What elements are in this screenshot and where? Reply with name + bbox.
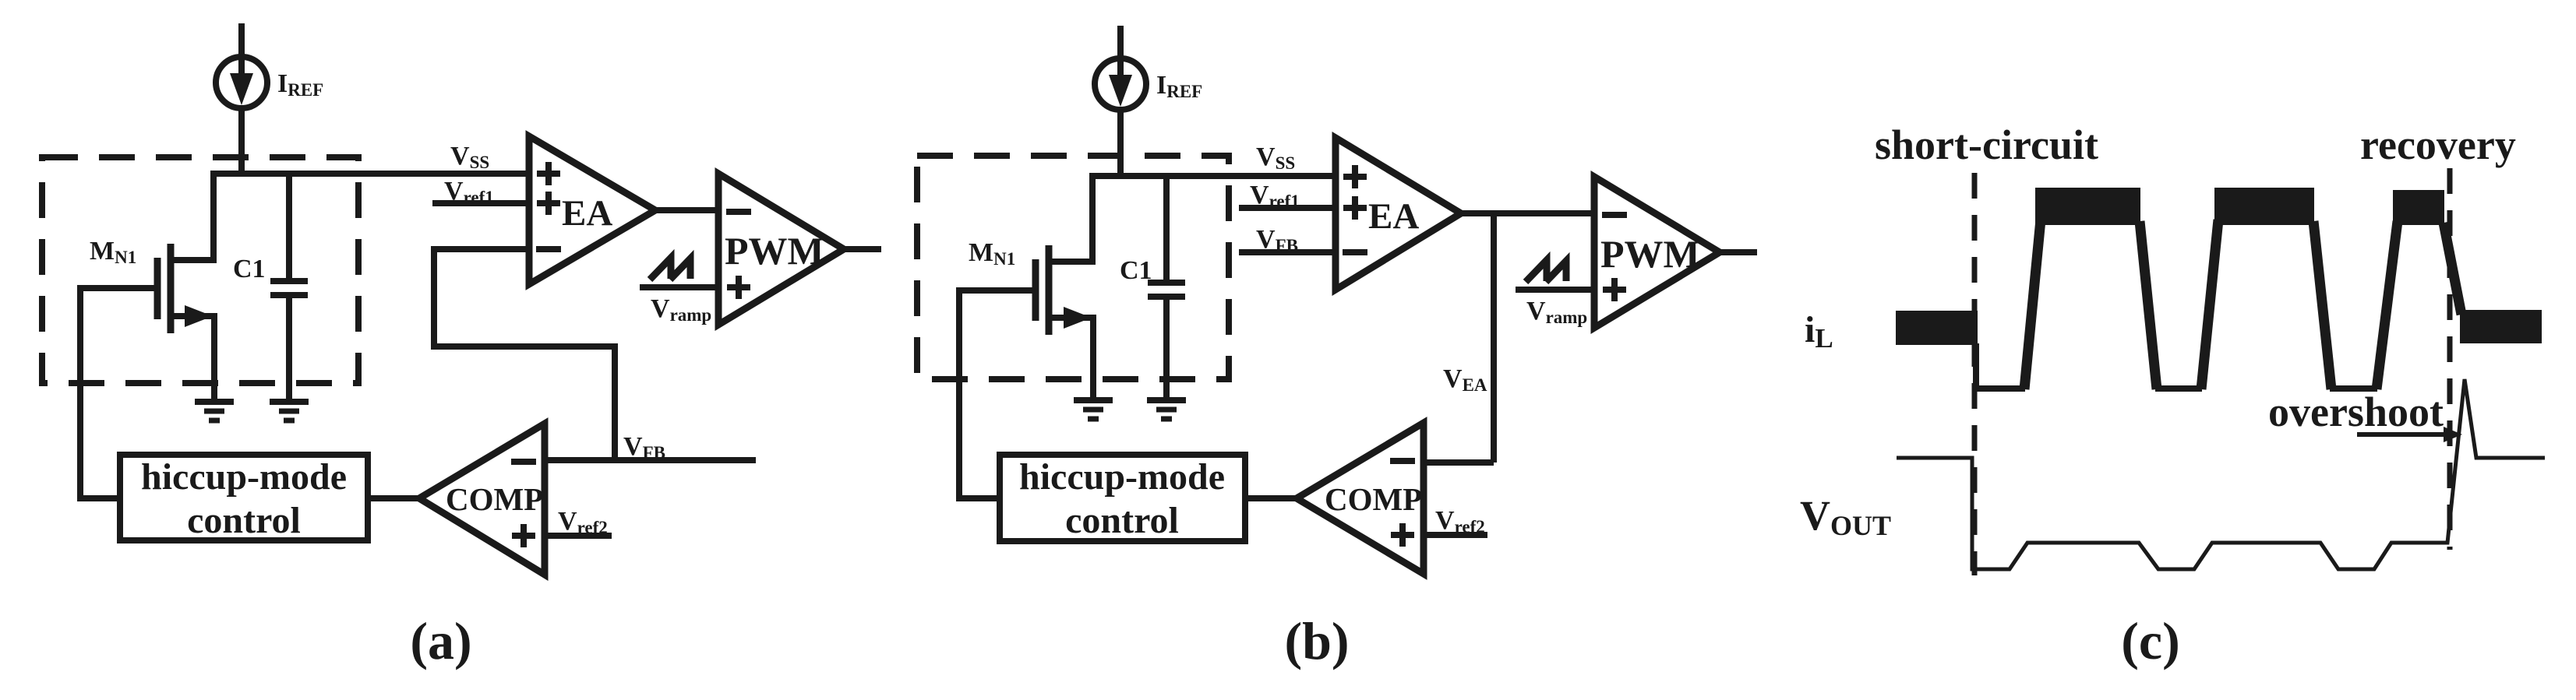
- i_L rising ramp 1: [2024, 220, 2041, 389]
- sawtooth ramp symbol (a): [650, 258, 671, 280]
- wire V_ref2 input (a): [545, 533, 612, 539]
- svg-text:Vramp: Vramp: [651, 294, 711, 325]
- svg-text:Vref1: Vref1: [444, 177, 494, 207]
- PWM plus input symbol (b): [1603, 278, 1626, 301]
- wire EA output to PWM (b): [1458, 210, 1597, 216]
- soft-start dashed box (b): [917, 156, 1229, 379]
- COMP minus input symbol (a): [511, 459, 536, 465]
- wire gate horizontal (a): [80, 285, 161, 291]
- wire EA minus input feedback (a): [434, 246, 532, 252]
- svg-text:EA: EA: [562, 193, 612, 234]
- PWM minus input symbol (a): [726, 209, 751, 215]
- svg-text:COMP: COMP: [446, 481, 543, 517]
- wire COMP output to hiccup control (b): [1245, 495, 1301, 501]
- svg-text:IREF: IREF: [1156, 71, 1202, 101]
- svg-text:VFB: VFB: [1256, 225, 1298, 255]
- wire capacitor top (b): [1163, 173, 1170, 283]
- wire gate vertical to hiccup control (b): [956, 287, 962, 498]
- transistor M_N1 source lead with arrow (a): [171, 313, 214, 319]
- EA plus input 2 symbol (b): [1343, 196, 1367, 220]
- wire drain horizontal (b): [1049, 259, 1096, 265]
- wire PWM output (b): [1717, 249, 1757, 255]
- svg-text:(c): (c): [2121, 611, 2179, 670]
- svg-text:VSS: VSS: [1256, 142, 1295, 173]
- i_L rising ramp 2: [2201, 220, 2218, 389]
- ground under C1 (b): [1147, 397, 1186, 403]
- comparator COMP (a): [419, 424, 545, 575]
- svg-text:PWM: PWM: [725, 229, 824, 273]
- transistor M_N1 channel bar (a): [168, 244, 175, 333]
- wire capacitor bottom (a): [286, 295, 292, 399]
- svg-text:(a): (a): [410, 611, 471, 670]
- wire current source to V_SS bus (a): [238, 106, 245, 174]
- op-amp EA (b): [1336, 138, 1461, 290]
- svg-text:Vramp: Vramp: [1526, 297, 1587, 327]
- svg-text:recovery: recovery: [2360, 121, 2516, 168]
- svg-text:iL: iL: [1805, 309, 1833, 354]
- transistor M_N1 source lead with arrow (b): [1049, 315, 1093, 321]
- COMP minus input symbol (b): [1390, 458, 1415, 464]
- wire V_SS bus (b): [1092, 173, 1336, 179]
- wire V_ramp input (b): [1516, 287, 1597, 293]
- wire EA output to PWM (a): [652, 207, 722, 213]
- current source I_REF (b): [1095, 58, 1146, 110]
- svg-text:C1: C1: [1120, 256, 1152, 285]
- svg-text:(b): (b): [1284, 611, 1349, 670]
- wire COMP minus input from V_EA (b): [1424, 459, 1494, 466]
- i_L low segment 2: [2155, 385, 2202, 392]
- i_L falling ramp 1: [2140, 221, 2157, 389]
- i_L rising ramp 3: [2377, 221, 2398, 389]
- svg-text:PWM: PWM: [1600, 232, 1700, 276]
- svg-text:VSS: VSS: [450, 142, 489, 172]
- short-circuit event dashed line: [1972, 173, 1978, 575]
- recovery event dashed line: [2447, 168, 2453, 550]
- svg-text:MN1: MN1: [969, 238, 1015, 269]
- wire drain horizontal (a): [171, 257, 217, 263]
- wire V_EA vertical (b): [1491, 210, 1497, 463]
- comparator COMP (b): [1297, 423, 1424, 574]
- svg-text:control: control: [1065, 500, 1179, 541]
- transistor M_N1 gate bar (b): [1032, 259, 1039, 321]
- i_L low segment 3: [2330, 385, 2377, 392]
- wire V_ref2 input (b): [1424, 532, 1487, 538]
- wire V_SS bus (a): [213, 171, 529, 177]
- wire PWM output (a): [841, 246, 881, 252]
- op-amp EA (a): [529, 136, 655, 284]
- capacitor C1 (a): [270, 278, 308, 284]
- svg-text:hiccup-mode: hiccup-mode: [1019, 456, 1225, 498]
- EA plus input 2 symbol (a): [537, 192, 560, 215]
- svg-text:MN1: MN1: [90, 237, 136, 267]
- svg-text:VEA: VEA: [1443, 364, 1487, 395]
- wire gate horizontal (b): [959, 287, 1039, 294]
- wire capacitor top (a): [286, 171, 292, 281]
- hiccup-mode control block (a): [120, 455, 368, 540]
- wire V_FB node (a): [545, 457, 756, 463]
- wire source to ground (b): [1090, 315, 1096, 398]
- i_L low segment 1: [1976, 385, 2025, 392]
- i_L initial current band: [1896, 311, 1978, 345]
- wire supply stub (a): [238, 23, 245, 59]
- wire COMP output to hiccup control (a): [368, 495, 424, 501]
- svg-text:hiccup-mode: hiccup-mode: [141, 456, 347, 498]
- i_L drop at short-circuit: [1973, 343, 1979, 389]
- EA plus input 1 symbol (b): [1343, 165, 1367, 188]
- wire V_ramp input (a): [640, 284, 722, 290]
- wire V_FB input (b): [1239, 249, 1339, 255]
- comparator PWM (b): [1594, 177, 1720, 328]
- svg-text:VFB: VFB: [623, 432, 665, 463]
- wire drain vertical (a): [210, 171, 217, 260]
- ground under M_N1 (b): [1074, 397, 1113, 403]
- svg-text:C1: C1: [233, 255, 266, 283]
- svg-text:Vref1: Vref1: [1250, 181, 1300, 211]
- V_OUT waveform trace: [1897, 379, 2545, 569]
- EA minus input symbol (b): [1343, 249, 1367, 255]
- svg-text:short-circuit: short-circuit: [1875, 121, 2098, 168]
- wire V_ref1 input (a): [432, 200, 532, 206]
- i_L falling ramp 2: [2313, 221, 2331, 389]
- svg-text:IREF: IREF: [277, 69, 323, 100]
- svg-text:overshoot: overshoot: [2268, 389, 2444, 435]
- transistor M_N1 channel bar (b): [1046, 245, 1053, 335]
- wire drain vertical (b): [1089, 173, 1096, 262]
- soft-start dashed box (a): [42, 157, 358, 383]
- i_L top band 1: [2035, 188, 2140, 225]
- wire into hiccup control (b): [956, 495, 1000, 501]
- EA minus input symbol (a): [536, 246, 561, 252]
- EA plus input 1 symbol (a): [537, 162, 560, 185]
- ground under C1 (a): [270, 399, 309, 405]
- i_L top band 3: [2393, 190, 2444, 225]
- svg-text:EA: EA: [1368, 196, 1419, 237]
- sawtooth ramp symbol (b): [1526, 260, 1547, 282]
- i_L top band 2: [2214, 188, 2314, 225]
- PWM plus input symbol (a): [727, 276, 750, 299]
- COMP plus input symbol (b): [1391, 523, 1414, 547]
- overshoot arrow: [2357, 432, 2447, 437]
- wire supply stub (b): [1117, 26, 1124, 61]
- wire capacitor bottom (b): [1163, 297, 1170, 398]
- COMP plus input symbol (a): [512, 524, 535, 547]
- i_L final current band: [2460, 310, 2542, 343]
- svg-text:Vref2: Vref2: [558, 507, 608, 537]
- capacitor C1 (b): [1148, 280, 1185, 286]
- ground under M_N1 (a): [195, 399, 234, 405]
- comparator PWM (a): [718, 174, 844, 325]
- svg-text:VOUT: VOUT: [1800, 492, 1891, 541]
- svg-text:Vref2: Vref2: [1435, 506, 1485, 536]
- wire source to ground (a): [211, 313, 217, 399]
- svg-text:COMP: COMP: [1325, 481, 1422, 517]
- PWM minus input symbol (b): [1602, 212, 1627, 218]
- wire current source to V_SS bus (b): [1117, 107, 1124, 176]
- hiccup-mode control block (b): [1000, 455, 1245, 541]
- current source I_REF (a): [216, 57, 267, 108]
- wire into hiccup control (a): [77, 495, 120, 501]
- i_L falling ramp 3: [2444, 223, 2461, 315]
- wire gate vertical to hiccup control (a): [77, 285, 83, 498]
- svg-text:control: control: [187, 500, 301, 541]
- wire V_ref1 input (b): [1239, 205, 1339, 211]
- transistor M_N1 gate bar (a): [154, 258, 161, 319]
